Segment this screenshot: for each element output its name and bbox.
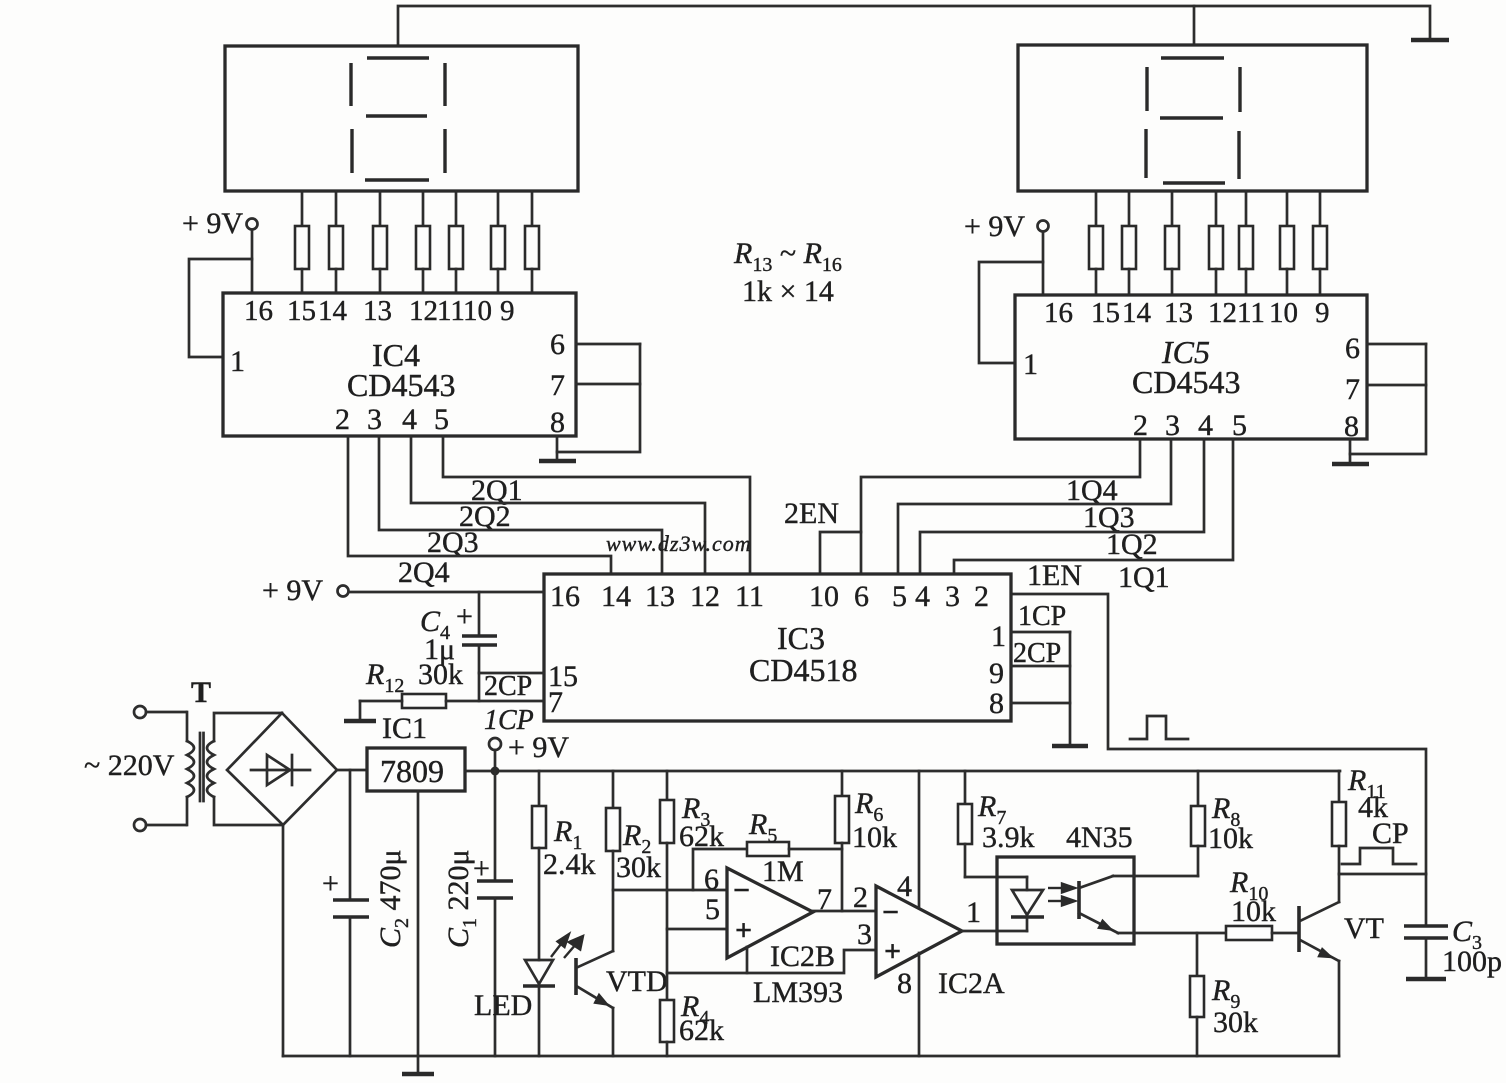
svg-text:8: 8 <box>550 406 565 439</box>
svg-text:30k: 30k <box>1213 1006 1258 1039</box>
op IC3 CD4518 box <box>544 574 1011 721</box>
svg-text:7809: 7809 <box>380 753 444 789</box>
svg-text:C2 470μ: C2 470μ <box>374 849 413 948</box>
svg-text:5: 5 <box>1232 409 1247 442</box>
LED <box>525 960 553 984</box>
svg-text:11: 11 <box>1237 297 1265 329</box>
svg-text:11: 11 <box>735 580 764 613</box>
svg-text:30k: 30k <box>418 658 463 691</box>
DS2 digit segments <box>1146 58 1240 183</box>
wire +9V to IC3 pin16 <box>349 591 544 594</box>
svg-text:13: 13 <box>1164 297 1193 329</box>
svg-text:62k: 62k <box>679 1014 724 1047</box>
resistor R7 <box>964 771 967 804</box>
svg-text:7: 7 <box>1345 373 1360 406</box>
svg-text:7: 7 <box>548 686 563 719</box>
regulator 7809 box <box>367 748 465 791</box>
svg-text:+ 9V: + 9V <box>182 207 243 240</box>
op IC4 CD4543 box <box>223 293 576 436</box>
svg-text:9: 9 <box>500 295 515 327</box>
svg-text:IC3: IC3 <box>777 620 825 656</box>
capacitor C3 <box>1425 874 1428 926</box>
wires DS2 pins to resistors <box>1096 191 1320 226</box>
svg-text:CD4518: CD4518 <box>749 652 857 688</box>
svg-text:+ 9V: + 9V <box>262 574 323 607</box>
svg-text:10k: 10k <box>1208 822 1253 855</box>
wire 1Q2 (IC5 pin4 to IC3 pin4) <box>920 439 1204 574</box>
svg-text:15: 15 <box>1091 297 1120 329</box>
wire 1Q4 (IC5 pin2 to IC3 pin6) <box>861 439 1140 574</box>
svg-text:R12: R12 <box>365 658 404 697</box>
svg-text:30k: 30k <box>616 851 661 884</box>
resistor R10 <box>1226 926 1272 940</box>
wire 1EN (IC3 pin2 to CP node) <box>1011 594 1426 874</box>
wire IC4 pin6/7 bracket <box>557 344 640 452</box>
svg-text:15: 15 <box>287 295 316 327</box>
svg-text:2Q3: 2Q3 <box>427 526 479 559</box>
svg-text:7: 7 <box>550 369 565 402</box>
capacitor C4 <box>478 592 481 636</box>
svg-text:1k × 14: 1k × 14 <box>742 275 834 308</box>
svg-text:5: 5 <box>892 580 907 613</box>
bridge rectifier <box>227 713 337 825</box>
wire +9V to IC4 pin16 <box>251 230 254 293</box>
optocoupler 4N35 box <box>997 857 1134 944</box>
ground IC5 pin8 <box>1349 439 1352 462</box>
svg-text:100p: 100p <box>1442 945 1502 978</box>
svg-text:14: 14 <box>601 580 631 613</box>
ground 7809 <box>417 791 420 1072</box>
svg-text:2CP: 2CP <box>1013 638 1061 669</box>
svg-text:10k: 10k <box>852 821 897 854</box>
svg-text:10: 10 <box>809 580 839 613</box>
resistor R1 <box>538 771 541 806</box>
wires resistors to IC5 <box>1096 269 1320 295</box>
svg-text:8: 8 <box>989 687 1004 720</box>
resistor R3 <box>666 771 669 800</box>
wire IC2B output to IC2A pin2 <box>813 910 876 913</box>
svg-text:9: 9 <box>1315 297 1330 329</box>
op-amp IC2A <box>876 886 962 977</box>
wires resistors to IC4 <box>302 269 532 293</box>
svg-text:2: 2 <box>335 403 350 436</box>
svg-text:VTD: VTD <box>606 965 668 998</box>
svg-text:~ 220V: ~ 220V <box>84 749 175 782</box>
svg-text:3: 3 <box>945 580 960 613</box>
ground IC3 clock pins <box>1069 632 1072 744</box>
svg-text:1Q1: 1Q1 <box>1118 561 1170 594</box>
svg-text:+: + <box>322 867 339 900</box>
7-segment display DS1 <box>225 46 578 191</box>
ground IC4 pin8 <box>556 436 559 460</box>
ground R12 <box>359 701 362 719</box>
svg-text:CP: CP <box>1372 817 1409 850</box>
opto phototransistor <box>1079 876 1226 933</box>
svg-text:VT: VT <box>1344 912 1384 945</box>
opto LED <box>1011 877 1044 931</box>
wire IC2A pin3 net <box>667 950 876 973</box>
phototransistor VTD <box>576 951 613 1056</box>
capacitor C1 <box>494 771 497 881</box>
wire 2Q3 (IC4 pin3 to IC3 pin13) <box>379 436 662 574</box>
svg-text:2: 2 <box>853 881 868 914</box>
svg-text:13: 13 <box>645 580 675 613</box>
ground top-right <box>1411 38 1449 43</box>
svg-text:10k: 10k <box>1231 895 1276 928</box>
svg-text:4: 4 <box>897 870 912 903</box>
wire IC3 pin9 (2CP right) <box>1011 665 1070 668</box>
wire IC3 pin1 (1CP right) <box>1011 631 1070 634</box>
DS1 digit segments <box>351 58 445 180</box>
svg-text:12: 12 <box>690 580 720 613</box>
svg-text:12: 12 <box>1208 297 1237 329</box>
svg-text:1: 1 <box>991 620 1006 653</box>
svg-text:1: 1 <box>966 896 981 929</box>
wire IC4 pin7 <box>576 383 640 386</box>
+9V terminal mid <box>489 738 501 750</box>
wire IC2B pin6 <box>613 889 727 892</box>
wire display2 top feed <box>1193 6 1196 45</box>
wire AC bottom <box>146 824 186 827</box>
wire CP node <box>1339 873 1426 876</box>
svg-text:2Q4: 2Q4 <box>398 556 450 589</box>
svg-text:13: 13 <box>363 295 392 327</box>
transistor VT <box>1297 906 1301 952</box>
wire IC5 pin6 <box>1367 343 1426 346</box>
resistors R13-R16 group right (1k x 7) <box>1089 226 1327 269</box>
wires DS1 pins to resistors <box>302 191 532 226</box>
svg-text:4: 4 <box>1198 409 1213 442</box>
svg-text:2CP: 2CP <box>484 671 532 702</box>
svg-text:2: 2 <box>974 580 989 613</box>
+9V rail from 7809 <box>465 770 1340 773</box>
svg-text:CD4543: CD4543 <box>1132 364 1240 400</box>
svg-text:IC2A: IC2A <box>938 967 1005 1000</box>
svg-text:2: 2 <box>1133 409 1148 442</box>
wire IC2A pin4 to rail <box>918 771 921 907</box>
svg-text:+ 9V: + 9V <box>964 210 1025 243</box>
svg-text:14: 14 <box>1122 297 1152 329</box>
svg-text:IC1: IC1 <box>382 712 427 745</box>
svg-text:T: T <box>191 676 211 709</box>
svg-text:5: 5 <box>434 403 449 436</box>
wire IC5 pin1 hook to +9V <box>979 262 1043 363</box>
svg-text:3: 3 <box>367 403 382 436</box>
svg-text:LED: LED <box>474 989 532 1022</box>
svg-text:11: 11 <box>437 295 465 327</box>
wire top +9-segment common rail <box>398 6 1430 46</box>
svg-text:1EN: 1EN <box>1027 559 1082 592</box>
wire 2EN (1Q4 to IC3 pin10) <box>820 532 861 574</box>
pulse symbol CP <box>1342 848 1416 864</box>
wire IC4 pin1 hook to +9V <box>189 259 252 357</box>
svg-text:6: 6 <box>1345 332 1360 365</box>
svg-text:+: + <box>456 600 473 633</box>
resistor R4 <box>660 1000 674 1042</box>
wire IC5 pin7 <box>1367 384 1426 387</box>
wire IC3 pin8 <box>1011 702 1070 705</box>
svg-text:3.9k: 3.9k <box>982 821 1035 854</box>
op IC5 CD4543 box <box>1015 295 1367 439</box>
svg-text:www.dz3w.com: www.dz3w.com <box>606 531 752 556</box>
resistor R11 <box>1338 771 1341 802</box>
svg-text:1: 1 <box>1023 348 1038 381</box>
svg-text:4N35: 4N35 <box>1066 821 1133 854</box>
svg-text:3: 3 <box>1165 409 1180 442</box>
opto light arrows <box>1048 884 1075 906</box>
svg-text:R13 ~ R16: R13 ~ R16 <box>733 237 842 276</box>
resistor R2 <box>612 771 615 808</box>
svg-text:1CP: 1CP <box>1018 601 1066 632</box>
svg-text:4: 4 <box>915 580 930 613</box>
resistor R6 <box>841 771 844 796</box>
wire 2Q2 (IC4 pin4 to IC3 pin12) <box>411 436 705 574</box>
terminal AC top <box>134 706 146 718</box>
svg-text:1M: 1M <box>762 855 804 888</box>
op-amp IC2B <box>727 868 813 958</box>
wire 2Q4 (IC4 pin2 to IC3 pin14) <box>348 436 611 574</box>
svg-text:CD4543: CD4543 <box>347 367 455 403</box>
wire IC2A out to opto LED cathode <box>962 930 1027 933</box>
7-segment display DS2 <box>1018 45 1367 191</box>
svg-text:9: 9 <box>989 657 1004 690</box>
LED emission arrows <box>551 934 583 958</box>
wire AC top <box>146 711 186 714</box>
svg-text:1: 1 <box>230 345 245 378</box>
capacitor C2 <box>349 770 352 900</box>
wire 1Q3 (IC5 pin3 to IC3 pin5) <box>898 439 1171 574</box>
svg-text:10: 10 <box>1269 297 1298 329</box>
svg-text:+: + <box>735 914 752 947</box>
svg-text:2.4k: 2.4k <box>543 848 596 881</box>
svg-text:−: − <box>733 874 750 907</box>
pulse symbol mid <box>1130 716 1188 739</box>
ground C3 <box>1406 977 1446 982</box>
terminal AC bottom <box>134 819 146 831</box>
svg-text:+ 9V: + 9V <box>508 731 569 764</box>
wire bottom rail <box>283 1055 1339 1058</box>
svg-text:IC2B: IC2B <box>770 940 835 973</box>
svg-text:2EN: 2EN <box>784 497 839 530</box>
wire IC2B pin5 <box>667 928 727 931</box>
svg-text:12: 12 <box>409 295 438 327</box>
svg-text:16: 16 <box>550 580 580 613</box>
svg-text:+: + <box>884 935 901 968</box>
svg-text:14: 14 <box>318 295 348 327</box>
svg-text:4: 4 <box>402 403 417 436</box>
svg-text:8: 8 <box>1344 410 1359 443</box>
wire IC4 pin6 <box>576 343 640 346</box>
resistor R5 feedback <box>693 849 747 890</box>
svg-text:LM393: LM393 <box>753 976 843 1009</box>
wire R7 to opto LED anode <box>965 876 1027 879</box>
resistors R13-R16 group left (1k x 7) <box>295 226 539 269</box>
wire bridge to 7809 <box>337 769 367 772</box>
svg-text:6: 6 <box>550 328 565 361</box>
wire 1Q1 (IC5 pin5 to IC3 pin3) <box>954 439 1233 574</box>
svg-text:1Q2: 1Q2 <box>1106 528 1158 561</box>
svg-text:16: 16 <box>1044 297 1073 329</box>
svg-text:3: 3 <box>857 918 872 951</box>
svg-text:6: 6 <box>854 580 869 613</box>
wire IC3 pin15 (2CP) <box>479 672 544 675</box>
svg-text:+: + <box>473 852 490 885</box>
svg-text:6: 6 <box>704 863 719 896</box>
resistor R9 <box>1196 933 1199 976</box>
svg-text:5: 5 <box>705 893 720 926</box>
svg-text:16: 16 <box>244 295 273 327</box>
svg-text:10: 10 <box>463 295 492 327</box>
resistor R12 <box>402 694 446 708</box>
wire IC2A pin8 to rail <box>918 953 921 1056</box>
resistor R8 <box>1197 771 1200 806</box>
wire bridge bottom to rail <box>282 825 285 1056</box>
node junction dot <box>491 767 500 776</box>
svg-text:8: 8 <box>897 967 912 1000</box>
wire +9V to IC5 pin16 <box>1042 232 1045 295</box>
wire 2Q1 (IC4 pin5 to IC3 pin11) <box>443 436 750 574</box>
wire IC5 pin6/7 bracket <box>1350 344 1426 454</box>
